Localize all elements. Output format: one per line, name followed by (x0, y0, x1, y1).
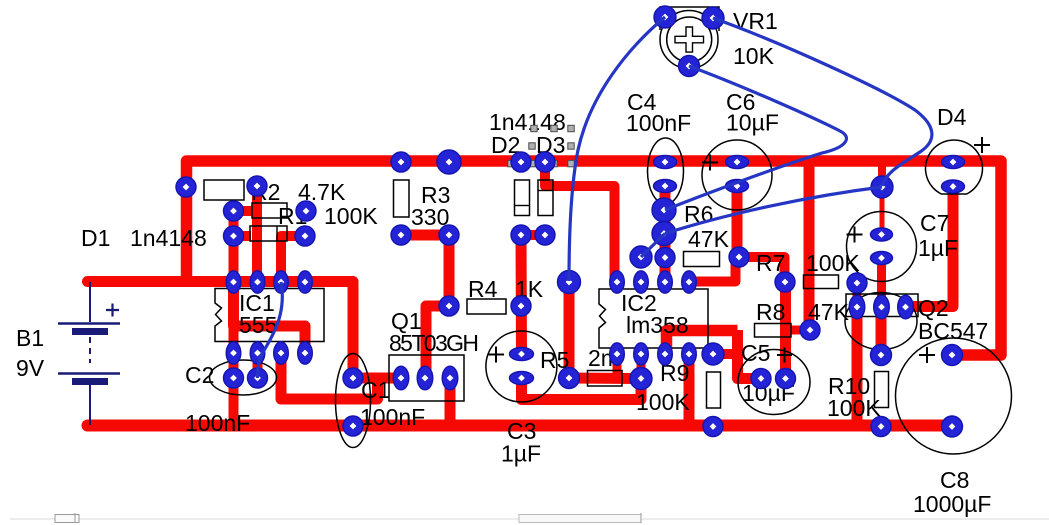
diode D4 outline (926, 137, 990, 194)
node pad VR1.A (654, 6, 676, 28)
wire Q2.3 right link (906, 301, 949, 312)
jumper wire junction to via (664,233) (665, 187, 882, 234)
svg-text:R4: R4 (468, 276, 498, 302)
resistor R2 outline (252, 203, 287, 218)
node pad IC1 pin2 (250, 342, 265, 364)
diode D3 outline (538, 180, 553, 216)
node pad C5.L (751, 369, 771, 389)
capacitor C3 outline (486, 331, 557, 402)
node pad R2.R (296, 201, 316, 221)
svg-text:C7: C7 (920, 210, 949, 236)
jumper wire IC1 pin6 to C2.R (258, 282, 283, 378)
node pad Q1.2 (417, 366, 433, 390)
wire R7.R to Q2.1 (853, 283, 862, 307)
svg-text:100nF: 100nF (360, 404, 425, 430)
capacitor C5 outline (738, 348, 810, 415)
node pad IC1 pin8 (226, 271, 241, 293)
node pad via w5 (630, 246, 652, 268)
wire D3 top to IC2.p1 (545, 163, 615, 281)
capacitor C1 outline (336, 354, 371, 448)
node pad R6.R (729, 247, 749, 267)
wire column D1.K to IC1.p2 (252, 187, 262, 282)
resistor R1 outline (250, 226, 287, 241)
node pad R3.b (391, 225, 411, 245)
node pad C3- (510, 372, 534, 385)
node pad D2 top (511, 152, 531, 172)
wire column C4- to IC2.p3 (660, 187, 671, 282)
node pad IC1 pin6 (274, 271, 289, 293)
node pad IC1 pin1 (226, 342, 241, 364)
node pad IC2 pin5 (682, 271, 697, 293)
svg-text:1000µF: 1000µF (913, 491, 991, 517)
node pad R1.L (224, 226, 244, 246)
node pad IC1 pin4 (298, 342, 313, 364)
resistor R5 outline (588, 371, 623, 387)
wire IC2.p4b to gnd rail (684, 354, 695, 426)
node pad IC2 pin2 (634, 343, 649, 365)
svg-text:C1: C1 (361, 377, 390, 403)
resistor R8 outline (755, 324, 792, 338)
diode D1 outline (204, 180, 244, 200)
wire Q2.2 to R10 top (876, 307, 887, 355)
node pad D4 top (942, 156, 965, 169)
node pad C1- (343, 416, 363, 436)
capacitor C7 outline (847, 212, 917, 282)
svg-text:B1: B1 (16, 325, 44, 351)
capacitor C2 outline (210, 360, 277, 395)
transistor Q2 outline (845, 293, 918, 350)
node pad Q2.3 (898, 295, 914, 319)
wire IC1 internal elbow p1-p4 (234, 282, 306, 354)
transistor Q1 outline (389, 355, 464, 401)
node pad C7- (871, 252, 893, 265)
jumper wire VR1.B arc to via (665,210) (665, 66, 846, 210)
wire column D2.b-R4.R-C3+ (516, 235, 528, 354)
svg-text:VR1: VR1 (733, 8, 778, 34)
svg-text:10µF: 10µF (726, 110, 779, 136)
node pad C8- (942, 416, 963, 437)
wire via to R5.L (564, 282, 575, 378)
wire C1+ to Q1.1 (353, 373, 401, 384)
node pad R7.L (775, 272, 795, 292)
node pad R5.R (630, 368, 652, 390)
diode D2 outline (515, 180, 530, 216)
node pad left-rail via (176, 177, 196, 197)
node pad IC2 pin4 (682, 343, 697, 365)
node pad R3.c (439, 225, 459, 245)
resistor R4 outline (467, 299, 506, 314)
node pad Q2.2 (874, 295, 890, 319)
wire C7- to Q2.2 (877, 258, 886, 307)
battery B1 symbol (58, 282, 120, 425)
node pad D3.b (535, 225, 555, 245)
node pad VR1.B (679, 56, 700, 77)
resistor R10 outline (875, 372, 889, 408)
svg-text:100nF: 100nF (185, 410, 250, 436)
svg-text:100K: 100K (636, 389, 690, 415)
svg-text:lm358: lm358 (626, 312, 689, 338)
svg-text:BC547: BC547 (918, 318, 988, 344)
node pad R10.b (871, 417, 891, 437)
wire rail to wire junction (878, 164, 886, 186)
wire IC1.p3b elbow to Q1 net (281, 353, 378, 399)
node pad Q1.3 (442, 366, 458, 390)
node pad C6 top (726, 156, 749, 169)
wire R2 left stub (234, 206, 254, 216)
wire R8.L to IC2.p3b (667, 331, 738, 354)
node pad C7+ (871, 228, 893, 241)
node pad C2.R (248, 368, 268, 388)
svg-text:1n4148: 1n4148 (130, 225, 207, 251)
wire column R2.L-R1.L-IC1.p1-C2.L-gnd (229, 211, 239, 426)
node pad R3 top (391, 152, 411, 172)
node pad IC1 pin7 (250, 271, 265, 293)
node pad C2.L (224, 368, 244, 388)
resistor R6 outline (684, 252, 720, 267)
svg-text:100K: 100K (324, 203, 378, 229)
selection handles around D3 (508, 125, 574, 166)
node pad R8.R (800, 320, 820, 340)
wire R6.R to R7.L (739, 257, 785, 282)
wire C3- elbow to R5.R (522, 378, 642, 400)
wire top rail + right edge to C8+ (187, 161, 1002, 355)
capacitor C6 outline (702, 140, 772, 210)
node pad junction (871, 176, 893, 198)
node pad IC2 pin3 (658, 343, 673, 365)
svg-text:100K: 100K (827, 395, 881, 421)
node pad via big (558, 271, 581, 294)
node pad C4 top (654, 156, 677, 169)
wire R3 row (401, 230, 449, 241)
node pad R4.L (439, 296, 459, 316)
svg-text:C5: C5 (741, 340, 770, 366)
capacitor C4 outline (648, 138, 684, 204)
node pad IC2 pin7 (634, 271, 649, 293)
node pad Q2.1 (849, 295, 865, 319)
wire rail drop to R8.R (804, 166, 815, 330)
svg-text:85T03GH: 85T03GH (389, 330, 479, 356)
wire R8 right stub (791, 326, 810, 335)
wire R8.L down to C5.L (738, 330, 762, 379)
node pad via wA (652, 198, 676, 222)
node pad R1.R (295, 226, 315, 246)
potentiometer VR1 outline (660, 7, 719, 69)
node pad D3 top (535, 152, 555, 172)
wire column C6- to R6.R (732, 187, 743, 258)
node pad IC1 pin3 (274, 342, 289, 364)
wire junction to C7+ (880, 187, 885, 234)
IC U1 555 outline (215, 289, 324, 342)
wire D2-D3 bottom link (521, 230, 545, 240)
svg-text:R8: R8 (756, 299, 785, 325)
node pad D4.b (942, 180, 965, 193)
window edge artifacts (10, 513, 1049, 523)
wire R7.L to C5.R (780, 282, 791, 379)
node pad C4.b (654, 180, 677, 193)
IC U2 lm358 outline (599, 289, 708, 348)
node pad R4.R (511, 296, 531, 316)
svg-text:C8: C8 (940, 467, 969, 493)
wire R5 shunt row (569, 373, 641, 385)
node pad IC2 pin6 (658, 271, 673, 293)
node pad D2.b (511, 225, 531, 245)
capacitor C8 outline (896, 338, 1012, 454)
wire D4- column down (906, 187, 954, 307)
wire R1 left stub (234, 231, 252, 241)
node pad VR1.C (702, 7, 724, 29)
svg-text:C2: C2 (185, 362, 214, 388)
wire R3.R down to R4.L (444, 235, 455, 306)
node pad IC2 pin1 (610, 343, 625, 365)
wire Q1.3 to gnd rail (445, 378, 456, 426)
wire R1.R to IC1.p3 (281, 236, 305, 281)
node pad IC2 pin8 (610, 271, 625, 293)
node pad R10.t (871, 345, 892, 366)
wire IC2.p5 to R6.R (689, 258, 736, 282)
svg-text:10K: 10K (733, 43, 775, 69)
node pad C5.R (776, 369, 796, 389)
node pad rail via (437, 150, 461, 174)
node pad C3+ (510, 348, 534, 361)
wire bottom rail B1- to C8- (88, 420, 953, 432)
node pad Q1.1 (393, 366, 409, 390)
node pad IC1 pin5 (298, 271, 313, 293)
wire IC2.p2b stub to R5.R (637, 354, 646, 379)
svg-text:D4: D4 (937, 104, 967, 130)
node pad D1.K (247, 176, 267, 196)
node pad R7.R (847, 273, 867, 293)
node pad R9.b (703, 417, 723, 437)
wire R9 top stub (713, 349, 737, 359)
resistor R7 outline (804, 275, 839, 289)
svg-text:1µF: 1µF (501, 441, 541, 467)
node pad C1+ (343, 368, 363, 388)
wire IC2.p1b stub (613, 354, 622, 375)
svg-text:1µF: 1µF (918, 235, 958, 261)
svg-text:100K: 100K (806, 250, 860, 276)
svg-text:47K: 47K (688, 226, 730, 252)
resistor R9 outline (707, 372, 721, 408)
node pad R5.L (559, 368, 580, 389)
wire mid rail B1+ to C1 (88, 282, 354, 378)
jumper wire VR1.A to via (569,282) (569, 17, 665, 281)
wire R4.L to Q1.2 (426, 306, 449, 377)
node pad C6.b (726, 180, 749, 193)
jumper wire via (641,257) stub (641, 234, 665, 258)
svg-text:D1: D1 (81, 225, 110, 251)
node pad R2.L (224, 201, 244, 221)
svg-text:100nF: 100nF (626, 110, 691, 136)
node pad R9.t (702, 343, 724, 365)
jumper wire VR1.C arc to junction (713, 18, 932, 186)
svg-text:9V: 9V (16, 355, 45, 381)
node pad C8+ (942, 345, 963, 366)
wire IC1.p2b to C2.R (253, 353, 263, 378)
wire Q2.1 to gnd rail (852, 307, 863, 426)
node pad R6.L (655, 248, 675, 268)
resistor R3 outline (394, 180, 410, 217)
node pad via wB (652, 222, 676, 246)
